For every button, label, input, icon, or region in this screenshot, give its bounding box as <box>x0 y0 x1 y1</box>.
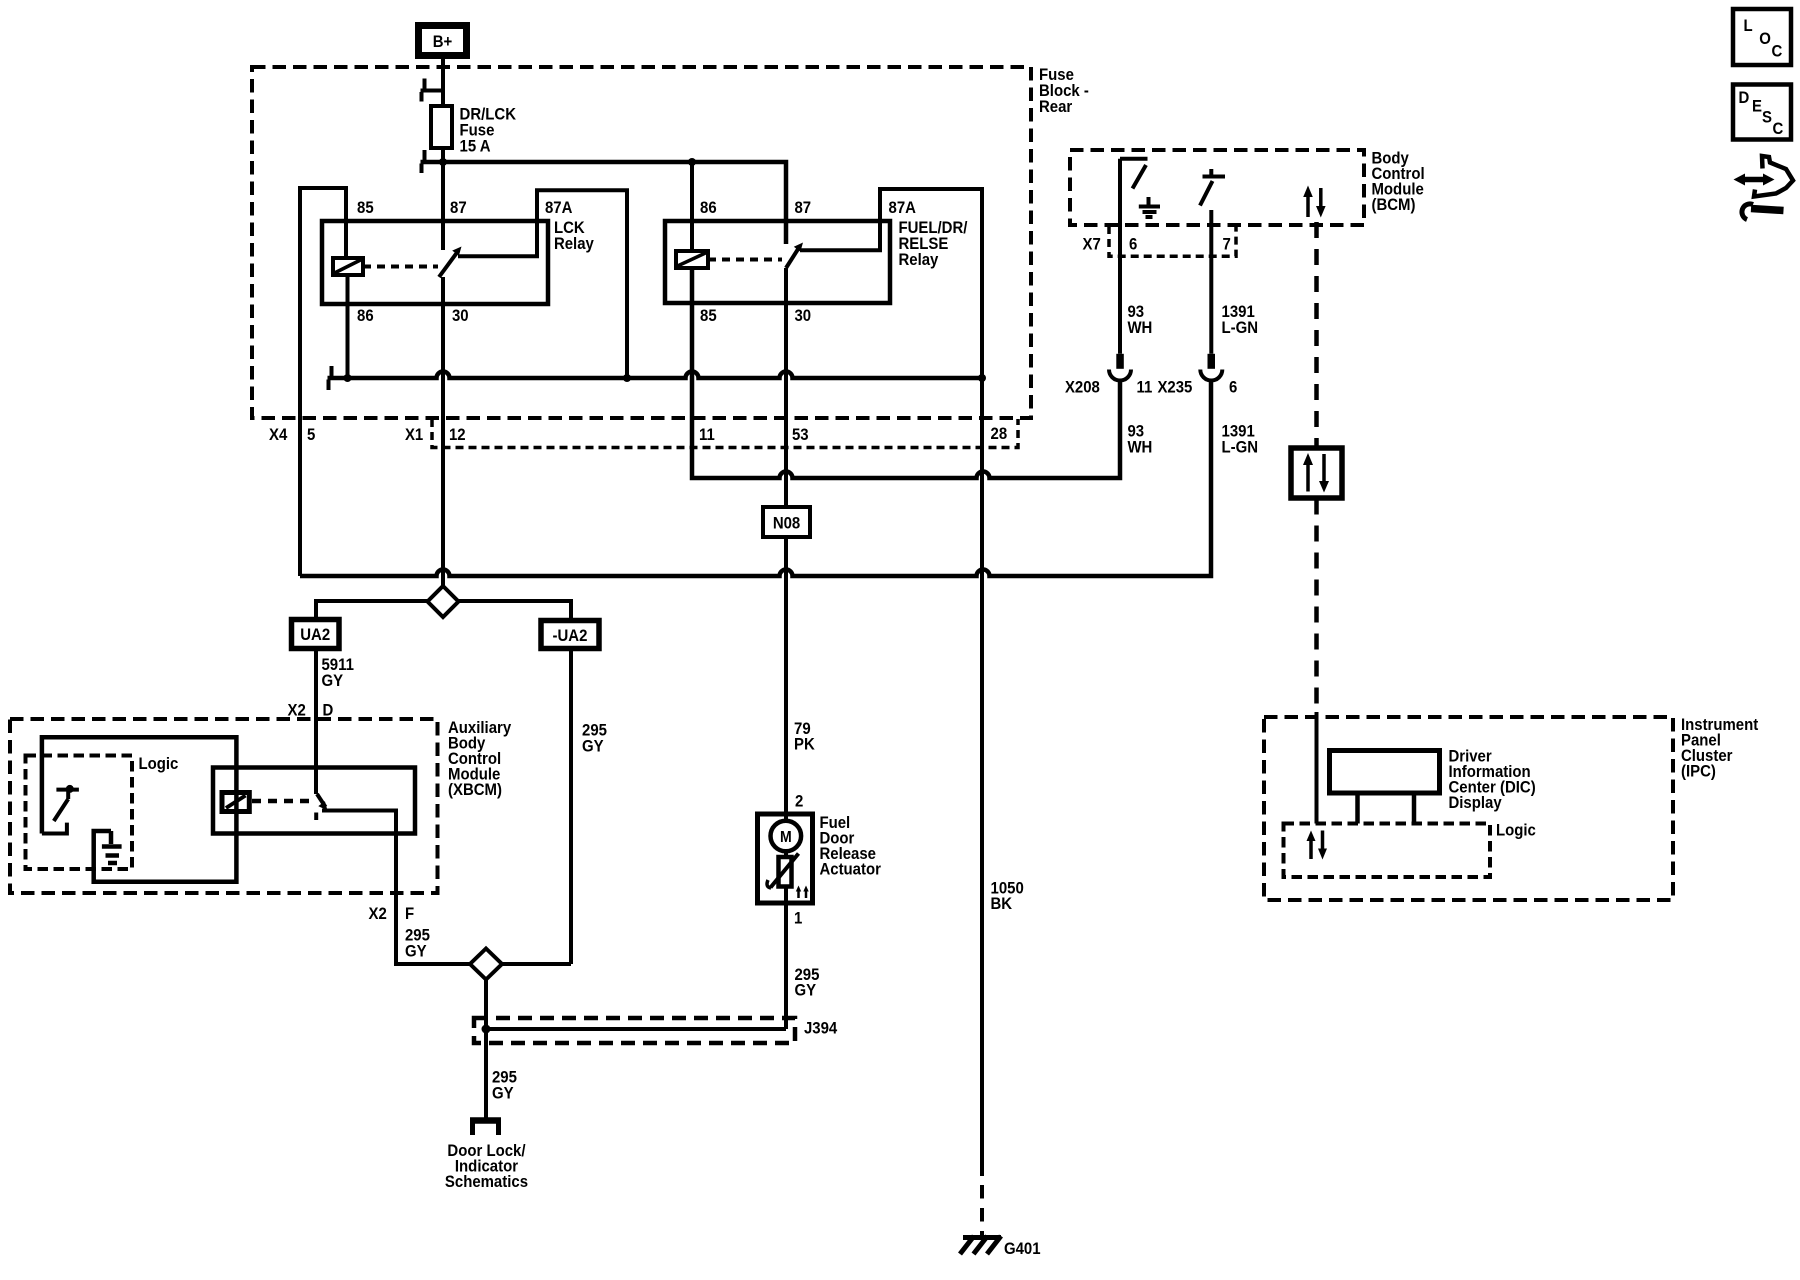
wire S2 down to J394 <box>484 980 488 1030</box>
svg-text:WH: WH <box>1127 319 1152 337</box>
svg-text:Actuator: Actuator <box>819 861 880 879</box>
svg-text:M: M <box>780 828 792 846</box>
svg-text:87A: 87A <box>889 199 917 217</box>
svg-text:GY: GY <box>794 982 816 1000</box>
svg-text:Relay: Relay <box>554 235 594 253</box>
relay FUEL/DR switch blade <box>786 246 800 268</box>
svg-text:L: L <box>1743 17 1752 35</box>
BCM module dashed box <box>1070 150 1364 225</box>
wire relay1 pin87A lead to 87A bus <box>458 190 627 378</box>
splice diamond S2 <box>470 949 502 980</box>
IPC module dashed box <box>1264 717 1673 900</box>
svg-text:GY: GY <box>321 672 343 690</box>
XBCM internal logic outline <box>42 737 237 882</box>
wire N08 to actuator pin2 (79 PK) <box>784 537 788 821</box>
relay LCK coil-switch dashed link <box>363 265 438 269</box>
wire relay1 pin87 lead <box>441 162 445 250</box>
svg-text:30: 30 <box>452 307 469 325</box>
wire B+ down to fuse <box>441 59 445 106</box>
svg-text:6: 6 <box>1129 236 1137 254</box>
wire relay2 pin30 lead down to N08 <box>784 268 788 507</box>
connector X235 pin6 separation <box>1208 354 1216 369</box>
svg-text:O: O <box>1759 30 1771 48</box>
BCM switch 2 <box>1200 169 1225 206</box>
fuse block rear module dashed box <box>252 67 1031 418</box>
ground symbol inside XBCM <box>102 831 122 863</box>
node N08 circuit tag <box>763 507 810 537</box>
svg-text:Display: Display <box>1448 794 1501 812</box>
relay XBCM coil-switch dashed link <box>252 799 311 804</box>
svg-text:Logic: Logic <box>1496 822 1536 840</box>
DIC display box <box>1330 751 1440 794</box>
icon diagnostic arrows and wrench <box>1743 177 1765 183</box>
wire 5911 GY UA2 to XBCM X2-D <box>314 649 318 795</box>
icon LOC box <box>1733 9 1791 65</box>
svg-text:87: 87 <box>794 199 811 217</box>
svg-text:X2: X2 <box>369 905 387 923</box>
XBCM module dashed box <box>10 719 438 893</box>
wire S1 to -UA2 <box>459 601 572 621</box>
svg-text:85: 85 <box>357 199 374 217</box>
junction J394 <box>482 1025 491 1034</box>
junction relay1 86 on bus <box>344 374 352 382</box>
wire J394 splice bar <box>486 1027 786 1031</box>
svg-text:53: 53 <box>792 426 809 444</box>
svg-text:X4: X4 <box>269 426 287 444</box>
wire relay2 pin86 lead <box>690 162 694 251</box>
wire relay1 pin85 lead to X4 pin5 <box>300 188 346 576</box>
wire relay2 pin87A lead to 87A bus <box>800 189 982 378</box>
relay LCK switch blade <box>439 251 459 278</box>
wire battery feed bus to relays <box>421 162 787 244</box>
svg-text:X2: X2 <box>287 702 305 720</box>
relay FUEL/DR coil-switch dashed link <box>708 258 782 262</box>
svg-text:E: E <box>1752 98 1762 116</box>
wire 1391 L-GN BCM X7-7 down to X235 <box>1209 210 1213 354</box>
svg-text:87: 87 <box>450 199 467 217</box>
svg-text:J394: J394 <box>804 1020 837 1038</box>
svg-text:UA2: UA2 <box>300 626 330 644</box>
terminal break left end of 87A bus <box>329 366 332 390</box>
svg-text:F: F <box>405 905 414 923</box>
BCM serial data arrows <box>1306 196 1310 217</box>
relay FUEL/DR/RELSE body <box>665 221 890 303</box>
svg-text:86: 86 <box>357 307 374 325</box>
svg-text:11: 11 <box>699 426 715 444</box>
terminal break below fuse <box>422 150 425 173</box>
svg-text:(XBCM): (XBCM) <box>448 781 502 799</box>
relay XBCM coil <box>222 793 249 812</box>
actuator solenoid element <box>784 852 788 858</box>
svg-text:6: 6 <box>1229 379 1237 397</box>
svg-text:BK: BK <box>991 895 1013 913</box>
icon DESC box <box>1733 85 1791 140</box>
node B+ battery feed box <box>419 26 467 56</box>
splice pack J394 dashed box <box>474 1018 795 1043</box>
svg-text:1: 1 <box>794 910 802 928</box>
terminal break above fuse <box>421 79 444 102</box>
XBCM solid state switch <box>66 785 74 793</box>
wire 93 WH BCM X7-6 down to X208 <box>1118 159 1122 354</box>
serial data arrow symbol box <box>1291 448 1342 498</box>
svg-text:X208: X208 <box>1065 379 1100 397</box>
svg-text:Relay: Relay <box>898 251 938 269</box>
wire relay2 pin85 lead to bus1 then X208-11 <box>692 268 1120 478</box>
node UA2 fuse tag box <box>292 620 340 649</box>
svg-text:B+: B+ <box>433 33 453 51</box>
svg-text:30: 30 <box>794 307 811 325</box>
wire 1050 BK pin28 down to G401 <box>980 378 984 1176</box>
svg-text:GY: GY <box>492 1085 514 1103</box>
IPC logic serial arrows <box>1309 840 1313 859</box>
off-page connector to door lock schematics <box>470 1117 501 1124</box>
svg-text:GY: GY <box>582 738 604 756</box>
svg-text:GY: GY <box>405 943 427 961</box>
svg-text:86: 86 <box>700 199 717 217</box>
svg-text:7: 7 <box>1222 236 1230 254</box>
svg-text:X235: X235 <box>1157 379 1192 397</box>
relay LCK body <box>322 221 548 304</box>
wire XBCM switch to X2-F then diamond S2 <box>322 811 470 965</box>
junction relay2 87A / 1050 BK <box>978 374 986 382</box>
svg-text:28: 28 <box>991 425 1008 443</box>
svg-text:Schematics: Schematics <box>445 1173 528 1191</box>
svg-text:S: S <box>1762 109 1772 127</box>
svg-text:11: 11 <box>1137 379 1153 397</box>
connector X7 dashed outline <box>1109 226 1236 256</box>
junction relay1 87A on bus <box>623 374 631 382</box>
svg-text:Logic: Logic <box>139 755 179 773</box>
relay XBCM body <box>213 768 415 834</box>
connector X1 dashed outline <box>432 419 1018 448</box>
node -UA2 fuse tag box <box>541 621 599 649</box>
svg-text:-UA2: -UA2 <box>553 627 588 645</box>
svg-text:X7: X7 <box>1082 236 1100 254</box>
ground G401 symbol <box>963 1235 1001 1240</box>
svg-text:D: D <box>323 702 334 720</box>
IPC logic dashed box <box>1284 824 1491 878</box>
svg-text:N08: N08 <box>773 515 801 533</box>
svg-text:2: 2 <box>795 793 803 811</box>
wire relay1 pin30 lead down to splice diamond <box>441 277 445 586</box>
svg-text:Rear: Rear <box>1039 98 1072 116</box>
wire S2 right branch to -UA2 wire <box>502 962 571 966</box>
wire 87A bus <box>328 372 983 379</box>
wire serial data to IPC <box>1314 499 1319 713</box>
svg-text:C: C <box>1772 120 1783 138</box>
BCM switch 1 to ground <box>1120 159 1148 189</box>
wire 295 GY J394 to door lock schematics <box>484 1029 488 1118</box>
svg-text:(BCM): (BCM) <box>1371 196 1415 214</box>
svg-text:WH: WH <box>1127 439 1152 457</box>
junction fuse output <box>439 158 447 166</box>
relay FUEL/DR coil <box>676 251 708 268</box>
motor M circle <box>771 821 802 852</box>
svg-text:12: 12 <box>449 426 466 444</box>
ground symbol inside BCM <box>1139 197 1160 217</box>
actuator detent arrows <box>797 889 800 898</box>
wire actuator pin1 down to J394 (295 GY) <box>784 903 788 1029</box>
XBCM logic dashed box <box>26 756 133 870</box>
fuel door release actuator box <box>758 814 813 903</box>
svg-text:15 A: 15 A <box>460 138 491 156</box>
wire relay1 pin86 lead <box>346 275 350 378</box>
connector X208 pin11 separation <box>1116 354 1124 369</box>
svg-text:L-GN: L-GN <box>1222 439 1259 457</box>
svg-text:C: C <box>1772 42 1783 60</box>
wire bus2 X4-5 to X235-6 (1391 L-GN) <box>300 381 1211 576</box>
svg-text:5: 5 <box>307 426 315 444</box>
junction feed tap relay2 coil <box>688 158 696 166</box>
svg-text:87A: 87A <box>545 199 573 217</box>
svg-text:X1: X1 <box>405 426 423 444</box>
svg-text:85: 85 <box>700 307 717 325</box>
wire S1 to UA2 <box>316 601 428 620</box>
relay LCK coil <box>333 258 363 275</box>
relay XBCM switch blade <box>317 794 326 807</box>
splice diamond S1 <box>428 586 459 617</box>
wire fuse to feed junction <box>441 148 445 162</box>
svg-text:G401: G401 <box>1004 1240 1041 1258</box>
wire serial data BCM to arrow symbol <box>1314 222 1319 448</box>
wire 295 GY -UA2 down to diamond S2 <box>569 649 573 965</box>
svg-text:L-GN: L-GN <box>1222 319 1259 337</box>
svg-text:(IPC): (IPC) <box>1681 763 1716 781</box>
fuse F DR/LCK 15A body <box>431 106 452 148</box>
svg-text:PK: PK <box>794 736 815 754</box>
svg-text:D: D <box>1739 89 1750 107</box>
